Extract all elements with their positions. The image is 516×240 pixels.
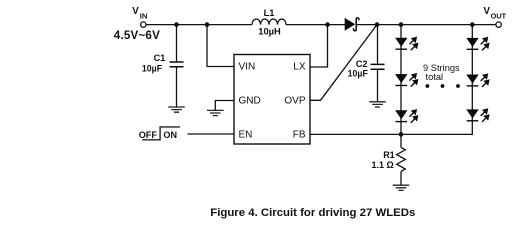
svg-text:total: total (426, 72, 444, 82)
svg-text:Figure 4. Circuit for driving: Figure 4. Circuit for driving 27 WLEDs (210, 207, 415, 219)
svg-text:10µF: 10µF (348, 68, 369, 78)
svg-text:VIN: VIN (239, 62, 256, 73)
svg-text:4.5V~6V: 4.5V~6V (114, 29, 160, 42)
svg-text:LX: LX (293, 62, 306, 73)
svg-text:C1: C1 (154, 53, 166, 63)
svg-text:10µF: 10µF (142, 63, 163, 73)
svg-text:GND: GND (239, 96, 261, 107)
svg-text:L1: L1 (264, 8, 275, 18)
svg-text:EN: EN (239, 129, 253, 140)
svg-text:OFF: OFF (139, 130, 158, 140)
svg-text:OVP: OVP (284, 96, 305, 107)
svg-text:R1: R1 (383, 150, 395, 160)
svg-text:10µH: 10µH (258, 26, 281, 36)
svg-text:FB: FB (293, 129, 306, 140)
svg-text:1.1 Ω: 1.1 Ω (372, 160, 394, 170)
svg-text:ON: ON (163, 130, 177, 140)
